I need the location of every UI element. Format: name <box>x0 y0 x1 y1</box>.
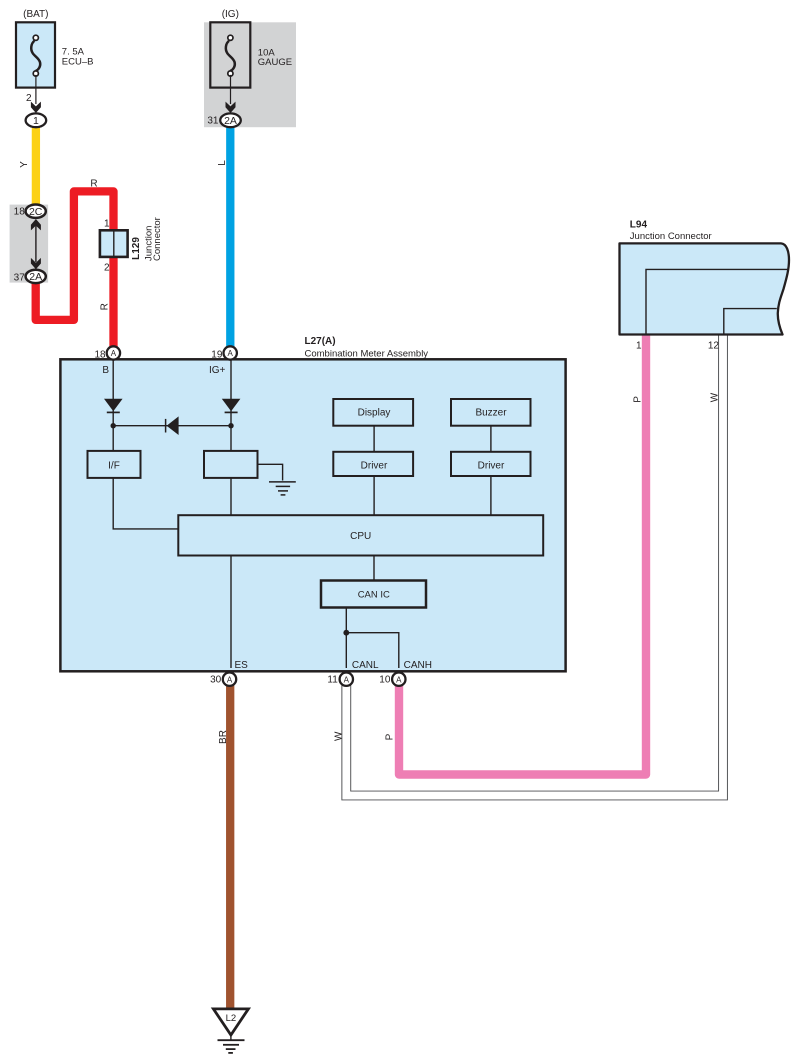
svg-text:Connector: Connector <box>152 217 163 261</box>
diode D2 <box>222 399 241 412</box>
wire fuse(IG) to connector <box>230 75 232 104</box>
svg-text:18: 18 <box>14 206 26 217</box>
svg-text:Combination Meter Assembly: Combination Meter Assembly <box>305 348 429 359</box>
svg-text:L129: L129 <box>131 237 142 260</box>
CAN IC box <box>321 581 426 608</box>
svg-text:18: 18 <box>94 349 106 360</box>
CPU box <box>178 515 543 555</box>
junction connector L129 <box>100 230 128 257</box>
svg-text:Driver: Driver <box>361 460 388 471</box>
wire fuse(BAT) to connector <box>35 75 37 104</box>
L94 inner bus pin 12 <box>724 309 777 334</box>
node dot 1 <box>111 423 116 428</box>
wire CPU to CAN IC <box>373 556 375 581</box>
svg-text:BR: BR <box>218 730 229 744</box>
svg-text:B: B <box>102 365 109 376</box>
svg-text:CANH: CANH <box>404 660 432 671</box>
svg-text:Y: Y <box>19 161 30 168</box>
connector 1 <box>26 113 47 127</box>
wire W white outline <box>346 331 723 796</box>
L94 inner bus pin 1 <box>646 269 788 334</box>
fuse (BAT) element <box>31 41 40 71</box>
junction connector L94 <box>620 243 790 334</box>
svg-text:(BAT): (BAT) <box>23 9 48 20</box>
svg-text:P: P <box>384 733 395 740</box>
svg-text:19: 19 <box>211 349 223 360</box>
wire BR brown <box>226 683 234 1009</box>
diode D3 <box>165 419 167 433</box>
node dot CAN <box>343 630 349 636</box>
svg-text:W: W <box>709 392 720 402</box>
svg-text:31: 31 <box>207 116 219 127</box>
svg-text:1: 1 <box>636 340 642 351</box>
wire R red <box>36 191 114 350</box>
wire Driver1-CPU <box>373 476 375 515</box>
svg-text:1: 1 <box>33 115 39 127</box>
svg-text:A: A <box>396 675 402 684</box>
svg-text:11: 11 <box>327 674 338 685</box>
svg-text:CPU: CPU <box>350 531 371 542</box>
svg-text:L2: L2 <box>226 1013 237 1024</box>
wire L blue <box>226 125 234 350</box>
fuse (IG) element <box>226 41 235 71</box>
arrowhead to connector 1 <box>31 102 41 113</box>
arrowhead to connector 2A <box>226 102 236 113</box>
svg-text:Junction Connector: Junction Connector <box>630 231 712 242</box>
svg-text:(IG): (IG) <box>222 9 239 20</box>
svg-text:L: L <box>217 160 228 166</box>
wire Buzzer-Driver <box>490 426 492 452</box>
svg-text:Buzzer: Buzzer <box>475 408 507 419</box>
svg-text:R: R <box>100 303 111 310</box>
svg-text:A: A <box>111 349 117 358</box>
svg-text:W: W <box>334 731 345 741</box>
wire IG+ internal <box>230 360 232 451</box>
wire between nodes <box>113 425 231 427</box>
svg-text:2C: 2C <box>29 206 43 218</box>
connector 2A <box>26 270 46 283</box>
wire Y yellow <box>32 125 40 206</box>
svg-text:CANL: CANL <box>352 660 379 671</box>
wire Driver2-CPU <box>490 476 492 515</box>
Driver box 2 <box>451 452 531 476</box>
svg-text:L27(A): L27(A) <box>305 336 336 347</box>
svg-text:2A: 2A <box>29 271 42 283</box>
svg-text:ES: ES <box>235 660 249 671</box>
svg-text:I/F: I/F <box>108 461 120 472</box>
wire I/F to CPU <box>113 478 178 529</box>
wire CAN IC to CANL <box>345 608 347 669</box>
node dot 2 <box>228 423 233 428</box>
internal ground <box>257 464 283 480</box>
wire P pink <box>399 331 646 775</box>
regulator box <box>204 451 258 478</box>
svg-text:A: A <box>228 349 234 358</box>
svg-text:2: 2 <box>104 263 110 274</box>
svg-text:IG+: IG+ <box>209 365 226 376</box>
svg-text:L94: L94 <box>630 219 648 230</box>
wire W white core <box>346 330 723 796</box>
connector block 2C/2A gray background <box>10 205 49 283</box>
svg-text:R: R <box>90 179 97 190</box>
svg-text:12: 12 <box>708 340 720 351</box>
svg-text:P: P <box>633 396 644 403</box>
svg-text:Driver: Driver <box>478 460 505 471</box>
svg-text:Display: Display <box>358 408 391 419</box>
svg-text:GAUGE: GAUGE <box>258 57 292 68</box>
wire CAN branch to CANH <box>346 633 399 668</box>
wire regulator to ES pin <box>230 556 232 669</box>
wire regulator to CPU <box>230 478 232 515</box>
svg-text:CAN IC: CAN IC <box>358 589 390 600</box>
fuse (IG) box <box>210 22 250 87</box>
fuse block (IG) gray background <box>204 22 296 127</box>
diode D1 <box>104 399 123 412</box>
Driver box 1 <box>333 452 413 476</box>
svg-text:30: 30 <box>210 674 222 685</box>
connector 2C <box>26 205 46 218</box>
connector 2A (IG) <box>220 113 241 127</box>
svg-text:ECU–B: ECU–B <box>62 57 94 68</box>
wire Display-Driver <box>373 426 375 452</box>
svg-text:10: 10 <box>379 674 391 685</box>
ground L2 <box>213 1009 248 1035</box>
svg-text:1: 1 <box>104 219 110 230</box>
double arrow 2C-2A <box>35 224 37 262</box>
svg-text:2A: 2A <box>224 115 237 127</box>
I/F box <box>88 451 141 478</box>
fuse (BAT) box <box>16 22 55 87</box>
svg-text:A: A <box>227 675 233 684</box>
svg-text:37: 37 <box>14 272 26 283</box>
Display box <box>333 399 413 426</box>
wire B internal <box>112 360 114 451</box>
combination meter assembly box L27(A) <box>60 359 565 671</box>
svg-text:A: A <box>344 675 350 684</box>
Buzzer box <box>451 399 531 426</box>
